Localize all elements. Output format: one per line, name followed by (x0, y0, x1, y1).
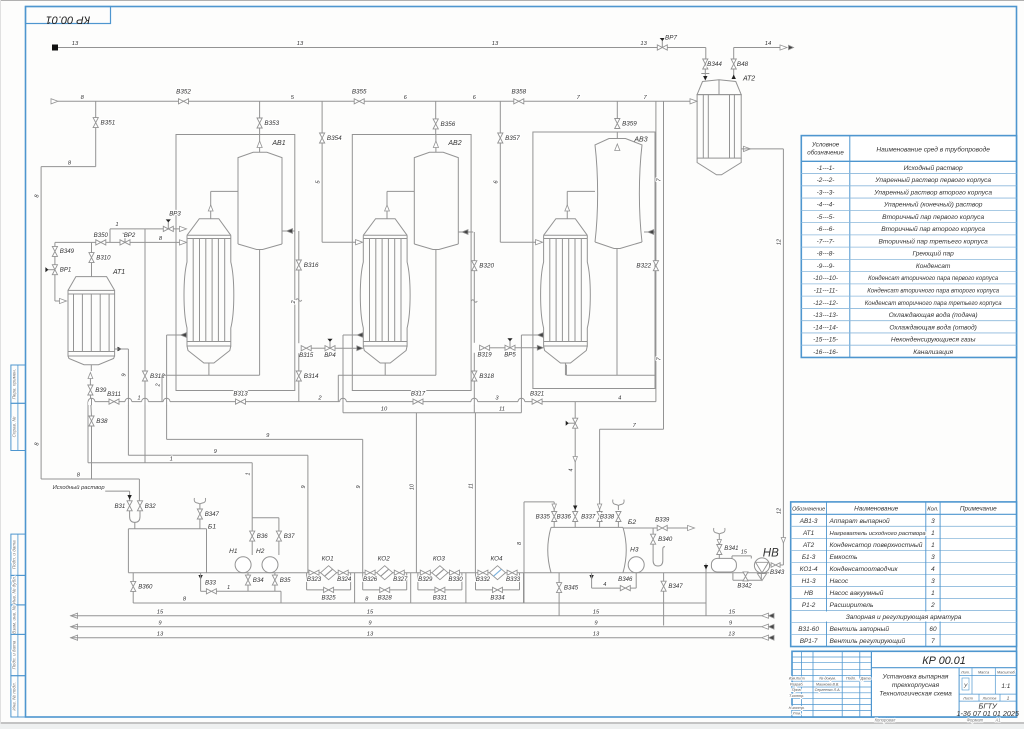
svg-text:АТ2: АТ2 (802, 542, 815, 549)
wire line 8 header (51, 99, 58, 104)
valve B346 (589, 575, 593, 580)
svg-text:В357: В357 (505, 135, 520, 142)
svg-text:Подп. и дата: Подп. и дата (11, 640, 16, 669)
svg-text:В321: В321 (530, 391, 544, 398)
svg-text:В335: В335 (536, 514, 551, 521)
valve B358 (514, 99, 524, 104)
wire line 6 to AB3 (499, 143, 501, 242)
svg-text:№ докум.: № докум. (819, 677, 836, 681)
valve BP1 (54, 256, 56, 264)
svg-text:Сергеенко Л.А.: Сергеенко Л.А. (815, 688, 841, 692)
svg-text:1: 1 (170, 456, 173, 462)
svg-text:обозначение: обозначение (807, 150, 844, 157)
svg-text:В360: В360 (138, 583, 153, 590)
svg-text:В313: В313 (233, 391, 248, 398)
svg-text:Установка выпарная: Установка выпарная (882, 674, 949, 681)
valve B311 (109, 399, 119, 404)
svg-text:Вторичный пар второго корпуса: Вторичный пар второго корпуса (881, 225, 985, 233)
valve B349 (54, 242, 56, 246)
valve B341 (718, 539, 720, 541)
svg-text:ВР3: ВР3 (169, 211, 181, 218)
svg-text:ВР1: ВР1 (60, 267, 72, 274)
valve B39 (88, 385, 93, 395)
svg-text:В339: В339 (655, 517, 670, 524)
svg-text:1: 1 (137, 395, 140, 401)
svg-text:Канализация: Канализация (913, 349, 953, 356)
svg-text:Емкость: Емкость (830, 554, 858, 561)
valve B353 (259, 101, 261, 118)
svg-text:Насос вакуумный: Насос вакуумный (830, 589, 884, 597)
svg-text:3: 3 (931, 554, 935, 561)
svg-text:А1: А1 (994, 718, 1000, 723)
svg-text:Аппарат выпарной: Аппарат выпарной (829, 517, 891, 525)
valve B347 drain (663, 573, 665, 582)
svg-text:13: 13 (72, 41, 79, 47)
wire drum drain (705, 573, 707, 616)
wire line 10-11 (y=412.7) (343, 412, 521, 414)
svg-text:В342: В342 (737, 583, 752, 590)
svg-text:В347: В347 (668, 583, 683, 590)
svg-text:1-36 07 01 01 2025: 1-36 07 01 01 2025 (957, 709, 1020, 718)
wire AT1 outlet line 9 (118, 347, 123, 351)
svg-text:В358: В358 (511, 89, 526, 96)
wire B31-B32 U seal (130, 511, 140, 523)
svg-text:Листов: Листов (982, 697, 997, 701)
wire 8-header riser to B335 (523, 502, 525, 603)
svg-text:4: 4 (618, 395, 621, 401)
svg-text:Б1-3: Б1-3 (802, 554, 816, 561)
wire riser to KO4 (474, 413, 476, 573)
valve B337 (599, 507, 601, 512)
wire AB1 bottom link (162, 374, 260, 376)
wire AB2 bottom link (338, 374, 436, 376)
valve B338 (616, 512, 621, 522)
svg-text:13: 13 (492, 41, 499, 47)
svg-text:КО2: КО2 (378, 556, 391, 563)
valve B360 (132, 573, 134, 582)
valve B359 (616, 101, 618, 118)
valve B340 (652, 528, 654, 534)
svg-text:В323: В323 (307, 576, 322, 583)
svg-text:В336: В336 (557, 514, 572, 521)
svg-text:Расширитель: Расширитель (830, 602, 874, 609)
svg-text:Масштаб: Масштаб (997, 670, 1016, 674)
svg-text:Формат: Формат (967, 718, 984, 723)
breather B338 (613, 500, 624, 507)
wire BP4 to AB2 chamber (311, 347, 325, 349)
svg-text:В356: В356 (441, 121, 456, 128)
heater AT1 (68, 277, 115, 291)
svg-text:В349: В349 (60, 248, 75, 255)
pump H3 (628, 557, 644, 573)
valve BP6 regulating (573, 418, 578, 428)
wire main bottom header (128, 572, 770, 574)
svg-text:-7---7-: -7---7- (817, 238, 835, 245)
wire B318 down line 11 (473, 381, 475, 413)
svg-text:10: 10 (381, 406, 388, 412)
svg-text:Конденсат вторичного пара втор: Конденсат вторичного пара второго корпус… (867, 289, 999, 295)
svg-text:В310: В310 (96, 254, 111, 261)
svg-text:Перв. примен.: Перв. примен. (11, 369, 16, 400)
wire pump drains (247, 573, 249, 592)
svg-text:-12---12-: -12---12- (813, 300, 838, 307)
svg-text:КР 00.01: КР 00.01 (46, 14, 90, 26)
svg-text:Нагреватель исходного раствора: Нагреватель исходного раствора (830, 531, 927, 537)
valve B31 (127, 501, 132, 511)
svg-text:Лит.: Лит. (960, 670, 970, 674)
svg-text:Копировал: Копировал (875, 718, 896, 723)
condenser AT2 (697, 80, 741, 95)
svg-text:9: 9 (356, 485, 362, 488)
valve B342 (732, 573, 734, 581)
left margin strips (11, 365, 26, 403)
svg-text:Обозначение: Обозначение (792, 507, 825, 513)
svg-text:-14---14-: -14---14- (813, 324, 838, 331)
valve B357 (499, 101, 501, 133)
valve B322 (653, 261, 658, 271)
valve BP3 (163, 226, 173, 231)
svg-text:Кол.: Кол. (927, 507, 938, 513)
wire B38 down (91, 426, 93, 479)
svg-text:В328: В328 (378, 594, 393, 601)
title block (792, 651, 1017, 717)
valve B38 (89, 416, 94, 426)
svg-text:КО1: КО1 (322, 556, 334, 563)
svg-text:АВ1-3: АВ1-3 (799, 518, 818, 525)
svg-text:В346: В346 (618, 576, 633, 583)
svg-text:Условное: Условное (811, 142, 840, 149)
svg-text:Охлаждающая вода (отвод): Охлаждающая вода (отвод) (889, 323, 976, 331)
svg-text:Вторичный пар первого корпуса: Вторичный пар первого корпуса (882, 213, 984, 221)
wire AB3 chamber condensate (521, 334, 543, 336)
condensate trap KO4 group (478, 570, 488, 575)
svg-text:В318: В318 (479, 373, 494, 380)
evaporator apparatus AB1 (176, 135, 295, 391)
wire line 13 header (58, 47, 657, 49)
svg-text:В317: В317 (411, 391, 426, 398)
svg-text:В353: В353 (264, 120, 279, 127)
wire line 9 upper (y=439.4) (167, 438, 363, 440)
wire line 8 to tank area (41, 478, 139, 480)
svg-text:15: 15 (741, 550, 748, 556)
valve B351 (93, 118, 98, 128)
svg-text:КР 00.01: КР 00.01 (922, 655, 966, 667)
svg-text:КО1-4: КО1-4 (800, 566, 818, 573)
svg-text:-6---6-: -6---6- (817, 226, 835, 233)
svg-text:-1---1-: -1---1- (817, 165, 835, 172)
vacuum pump HB (754, 558, 769, 573)
document label KP 00.01 (rotated) (26, 7, 111, 24)
svg-text:11: 11 (499, 406, 505, 412)
svg-text:В355: В355 (352, 89, 367, 96)
svg-text:Инв. № дубл.: Инв. № дубл. (11, 576, 16, 604)
svg-text:В312: В312 (150, 373, 165, 380)
svg-text:-3---3-: -3---3- (817, 189, 835, 196)
svg-text:Подп. и дата: Подп. и дата (11, 540, 16, 569)
svg-text:Вентиль запорный: Вентиль запорный (830, 625, 890, 633)
wire B314 column (298, 353, 300, 371)
valve B319 (480, 345, 490, 350)
svg-text:Исходный раствор: Исходный раствор (53, 484, 106, 491)
wire AT1 bottom drain (88, 373, 93, 379)
svg-text:Технологическая схема: Технологическая схема (879, 691, 952, 698)
svg-text:В37: В37 (284, 533, 295, 540)
svg-text:13: 13 (593, 631, 600, 637)
svg-text:Машкова В.В.: Машкова В.В. (816, 682, 839, 686)
wire AB1 chamber condensate (167, 334, 187, 336)
wire B322 down to line4 (655, 271, 657, 402)
svg-text:Вторичный пар третьего корпуса: Вторичный пар третьего корпуса (878, 237, 988, 245)
svg-text:Вентиль регулирующий: Вентиль регулирующий (830, 637, 906, 645)
svg-text:В340: В340 (658, 536, 673, 543)
wire B314 to line2 (298, 381, 300, 402)
valve B316 (296, 260, 301, 270)
valve B32 (137, 501, 142, 511)
svg-text:трехкорпусная: трехкорпусная (892, 682, 940, 689)
svg-text:1: 1 (931, 542, 935, 549)
svg-text:Охлаждающая вода (подача): Охлаждающая вода (подача) (889, 311, 978, 319)
wire crossing hops (88, 398, 95, 405)
legend table of pipeline media (801, 136, 1016, 358)
svg-text:Наименование: Наименование (854, 506, 899, 513)
svg-text:Неконденсирующиеся газы: Неконденсирующиеся газы (891, 336, 976, 344)
wire AB2 vapor to separator (458, 231, 473, 233)
svg-text:В344: В344 (707, 61, 722, 68)
valve B317 (413, 399, 423, 404)
svg-text:Конденсат: Конденсат (916, 262, 951, 270)
svg-text:АВ3: АВ3 (633, 137, 647, 144)
valve BP5 (505, 345, 515, 350)
svg-text:Изм.Лист: Изм.Лист (789, 677, 805, 681)
svg-text:9: 9 (301, 485, 307, 488)
svg-text:Т.контр.: Т.контр. (789, 694, 804, 698)
svg-text:ВР4: ВР4 (324, 352, 336, 359)
wire BP7 to B344 (667, 47, 706, 49)
wire riser to KO3 (415, 413, 417, 573)
svg-text:В359: В359 (622, 121, 637, 128)
svg-text:В311: В311 (107, 391, 121, 398)
svg-text:Конденсат вторичного пара трет: Конденсат вторичного пара третьего корпу… (865, 301, 1002, 307)
svg-text:ВР2: ВР2 (124, 232, 136, 239)
svg-text:Утв.: Утв. (792, 712, 801, 716)
valve B37 (276, 531, 281, 541)
evaporator apparatus AB2 (352, 135, 471, 391)
svg-text:13: 13 (728, 631, 735, 637)
svg-text:-4---4-: -4---4- (817, 202, 835, 209)
svg-text:ВР5: ВР5 (504, 351, 516, 358)
wire collector 8 (133, 602, 706, 604)
svg-text:12: 12 (776, 239, 782, 245)
svg-text:Конденсатоотводчик: Конденсатоотводчик (830, 565, 899, 573)
svg-text:В324: В324 (337, 576, 352, 583)
svg-text:-10---10-: -10---10- (813, 275, 838, 282)
valve B345 (558, 573, 560, 583)
svg-text:10: 10 (410, 483, 416, 490)
valve B310 (91, 242, 93, 252)
wire line 12 from AT2 (744, 146, 751, 151)
valve B318 (472, 371, 477, 381)
svg-text:Инв. № подл.: Инв. № подл. (11, 682, 16, 711)
svg-text:АТ2: АТ2 (742, 76, 755, 83)
valve B320 (472, 261, 477, 271)
svg-text:13: 13 (297, 41, 304, 47)
valve B347 (197, 509, 202, 519)
wire B339 branch (623, 527, 689, 529)
wire AB1 vapor to separator (282, 230, 295, 232)
svg-text:Конденсат вторичного пара перв: Конденсат вторичного пара первого корпус… (868, 276, 999, 282)
svg-text:Подп.: Подп. (846, 677, 856, 681)
svg-text:В345: В345 (564, 585, 579, 592)
wire BP5 to AB3 chamber (490, 347, 505, 349)
svg-text:7: 7 (931, 638, 935, 645)
svg-text:-16---16-: -16---16- (813, 349, 838, 356)
svg-text:В327: В327 (393, 576, 408, 583)
svg-text:В354: В354 (327, 135, 342, 142)
valve B321 (532, 399, 542, 404)
svg-text:3: 3 (931, 518, 935, 525)
svg-text:-5---5-: -5---5- (817, 214, 835, 221)
condensate trap KO1 group (309, 570, 319, 575)
svg-text:В314: В314 (304, 373, 319, 380)
valve B339 (657, 525, 667, 530)
svg-text:2: 2 (155, 383, 161, 387)
svg-text:В320: В320 (479, 263, 494, 270)
evaporator apparatus AB3 (533, 132, 655, 389)
svg-text:В316: В316 (304, 262, 319, 269)
svg-text:В325: В325 (321, 594, 336, 601)
valve B314 (296, 371, 301, 381)
svg-text:Греющий пар: Греющий пар (912, 250, 954, 258)
svg-text:В330: В330 (448, 576, 463, 583)
svg-text:Запорная и регулирующая армату: Запорная и регулирующая арматура (846, 614, 962, 621)
svg-text:В351: В351 (101, 120, 116, 127)
svg-text:Упаренный (конечный) раствор: Упаренный (конечный) раствор (883, 201, 983, 209)
valve BP4 (325, 346, 335, 351)
wire line 8 to AT1 row (55, 241, 181, 243)
svg-text:КО4: КО4 (490, 556, 503, 563)
svg-text:В36: В36 (257, 533, 268, 540)
svg-text:В332: В332 (476, 576, 491, 583)
svg-text:Исходный раствор: Исходный раствор (904, 164, 963, 172)
svg-text:Лист: Лист (962, 697, 973, 701)
valve B343 (770, 564, 772, 566)
wire line 7 down to B337 (663, 101, 665, 429)
wire B340 barometric seal (653, 544, 665, 566)
condensate trap KO3 group (420, 570, 430, 575)
svg-text:В331: В331 (433, 594, 447, 601)
svg-text:Н1-3: Н1-3 (802, 578, 816, 585)
wire BP1 to AT1 inlet (54, 275, 56, 301)
wire collector 15 (71, 613, 78, 618)
svg-text:В338: В338 (600, 514, 615, 521)
wire AB3 vapor up (644, 231, 656, 233)
wire B353 to AB1 (259, 128, 261, 135)
svg-text:1:1: 1:1 (1001, 683, 1010, 690)
svg-text:-13---13-: -13---13- (813, 312, 838, 319)
valve B36 (250, 531, 255, 541)
svg-text:Н3: Н3 (630, 547, 639, 554)
svg-text:Б1: Б1 (208, 524, 216, 531)
valve B313 (236, 399, 246, 404)
valve BP7 (657, 45, 667, 50)
svg-text:-8---8-: -8---8- (817, 251, 835, 258)
svg-text:АТ1: АТ1 (112, 269, 125, 276)
svg-text:15: 15 (593, 609, 600, 615)
svg-text:1: 1 (931, 590, 935, 597)
wire B318 column (473, 353, 475, 371)
svg-text:КО3: КО3 (433, 556, 446, 563)
svg-text:В341: В341 (724, 545, 738, 552)
svg-text:ВР1-7: ВР1-7 (800, 638, 818, 645)
svg-text:13: 13 (367, 631, 374, 637)
svg-text:В347: В347 (205, 511, 220, 518)
wire B320 down (473, 271, 475, 343)
wire line 1-2-3-4 (y=401.6) (88, 401, 656, 403)
valve B350 (96, 240, 106, 245)
svg-text:Справ. №: Справ. № (11, 416, 16, 437)
valve B35 (272, 575, 277, 585)
svg-text:Масса: Масса (978, 670, 989, 674)
svg-text:В35: В35 (280, 577, 291, 584)
svg-text:1: 1 (227, 585, 230, 591)
wire line 9 lower (y=455.3) (128, 454, 308, 456)
valve B352 (179, 99, 189, 104)
wire line 14 out (733, 48, 735, 60)
wire pump riser B312 column (144, 229, 146, 463)
svg-text:15: 15 (729, 609, 736, 615)
valve B48 (731, 59, 736, 69)
svg-text:В38: В38 (96, 418, 108, 425)
svg-text:В31-60: В31-60 (798, 626, 819, 633)
svg-text:Н.контр.: Н.контр. (789, 706, 805, 710)
svg-text:-2---2-: -2---2- (817, 177, 835, 184)
svg-text:НВ: НВ (804, 590, 814, 597)
svg-text:В322: В322 (636, 263, 651, 270)
svg-text:15: 15 (367, 609, 374, 615)
svg-text:Упаренный раствор первого корп: Упаренный раствор первого корпуса (874, 176, 991, 184)
pump H2 (262, 557, 278, 573)
svg-text:АВ2: АВ2 (447, 140, 461, 147)
svg-text:В334: В334 (490, 594, 505, 601)
valve B335 (552, 512, 557, 522)
svg-text:У: У (963, 684, 968, 690)
svg-text:В333: В333 (506, 576, 521, 583)
svg-text:В39: В39 (95, 387, 107, 394)
svg-text:11: 11 (469, 483, 475, 489)
svg-text:В31: В31 (114, 503, 125, 510)
svg-text:В319: В319 (477, 351, 492, 358)
svg-text:1: 1 (931, 530, 935, 537)
valve B354 (321, 101, 323, 133)
svg-text:В48: В48 (737, 61, 749, 68)
wire B48 to AT2 (733, 69, 735, 76)
svg-text:В32: В32 (145, 503, 156, 510)
valve B312 (142, 371, 147, 381)
svg-text:ВР7: ВР7 (665, 35, 677, 42)
node start line 13 (52, 45, 58, 51)
svg-text:-11---11-: -11---11- (814, 288, 838, 295)
svg-text:АТ1: АТ1 (802, 530, 815, 537)
valve B315 (301, 346, 311, 351)
wire B351 down-left (95, 128, 97, 167)
svg-text:Р1-2: Р1-2 (802, 602, 816, 609)
svg-text:2: 2 (930, 602, 935, 609)
valve B356 (435, 101, 437, 119)
svg-text:Пров.: Пров. (792, 688, 802, 692)
valve B344 (703, 59, 708, 69)
expander P1 (711, 558, 736, 572)
wire B39 to B38 (90, 395, 91, 416)
